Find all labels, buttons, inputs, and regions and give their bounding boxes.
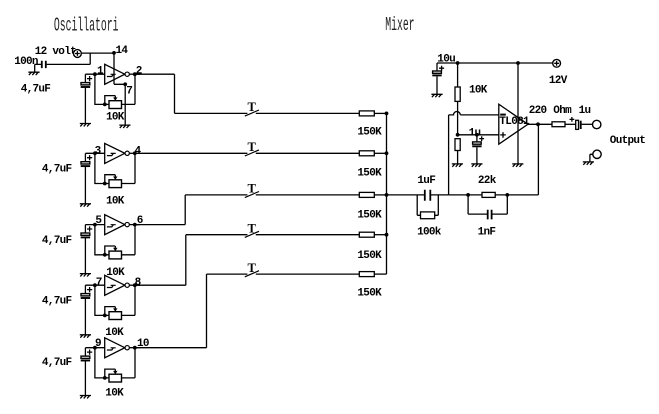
wire switch 1 to resistor (256, 112, 359, 114)
wire resistor 3 to bus (374, 194, 386, 196)
capacitor C4 4,7uF (84, 285, 86, 293)
ground (pin 7) (119, 125, 130, 128)
svg-text:150K: 150K (357, 126, 382, 138)
resistor 10K bias upper (457, 63, 459, 87)
wire inverting input with hop (449, 112, 499, 115)
svg-text:7: 7 (96, 277, 102, 289)
wire pin 14 to inverter (114, 53, 125, 84)
wire switch 3 to resistor (256, 194, 359, 196)
wire pin 7 to ground (124, 84, 126, 125)
svg-text:Ohm: Ohm (553, 105, 572, 117)
junction rail/op-amp supply (516, 61, 520, 65)
ground (op-amp) (512, 164, 523, 167)
node pin 5 (93, 223, 97, 227)
resistor 150K (row 5) (359, 272, 374, 277)
inverter U1A triangle (105, 64, 125, 84)
wire oscillator 1 to switch 1 (135, 74, 248, 113)
resistor 150K (row 3) (359, 192, 374, 197)
resistor bias lower (455, 139, 460, 151)
svg-text:4,7uF: 4,7uF (21, 84, 51, 96)
inverter U1D input wire (85, 284, 104, 286)
junction bus row 4 (385, 233, 389, 237)
inverter U1C triangle (105, 215, 125, 235)
capacitor C2 4,7uF (84, 153, 86, 161)
svg-text:4,7uF: 4,7uF (42, 357, 72, 369)
wire oscillator 3 to switch 3 (135, 195, 248, 225)
ground (C2) (80, 204, 91, 207)
node pin 1 (93, 72, 97, 76)
inverter U1B input wire (85, 152, 104, 154)
wire bus to 1uF (387, 194, 425, 196)
node pin 14 (112, 51, 116, 55)
terminal output signal (593, 120, 601, 128)
resistor 150K (row 1) (359, 111, 374, 116)
output bubble (125, 222, 129, 226)
svg-text:10K: 10K (106, 195, 125, 207)
op-amp minus marker (500, 114, 506, 116)
wire op-amp supply through to ground (517, 63, 519, 164)
wire resistor 1 to bus (374, 112, 386, 114)
inverter U1C input wire (85, 224, 104, 226)
wire resistor 5 to bus (374, 273, 386, 275)
hysteresis mark (107, 285, 116, 287)
power terminal 12V (mixer) (553, 59, 561, 67)
wire output pin 10 (129, 347, 140, 349)
wire output pin 6 (129, 224, 140, 226)
ground (bias divider) (452, 164, 463, 167)
hysteresis mark (107, 225, 116, 227)
svg-text:10K: 10K (105, 388, 124, 400)
capacitor C1 4,7uF (84, 74, 86, 82)
inverter U1A input wire (85, 73, 104, 75)
node pin 3 (93, 151, 97, 155)
capacitor 1u output (576, 120, 579, 129)
node pin 9 (93, 346, 97, 350)
inverter U1E input wire (85, 347, 104, 349)
output bubble (125, 283, 129, 287)
inverter U1E triangle (105, 338, 125, 358)
capacitor C3 4,7uF (84, 225, 86, 233)
potentiometer R5 10K feedback (95, 348, 109, 378)
junction rail/10K (456, 61, 460, 65)
svg-text:1nF: 1nF (478, 226, 496, 238)
junction 1u cap tap (475, 133, 479, 137)
svg-text:220: 220 (529, 105, 547, 117)
output bubble (125, 346, 129, 350)
junction 22k left (466, 193, 470, 197)
wire oscillator 4 to switch 4 (135, 235, 248, 286)
node pin 7 (93, 283, 97, 287)
wire non-inverting input (458, 134, 499, 136)
svg-text:1uF: 1uF (417, 175, 435, 187)
wire output pin 8 (129, 284, 140, 286)
svg-text:150K: 150K (357, 209, 382, 221)
wire rail to pin 14 (81, 52, 114, 54)
node pin 7 (123, 82, 127, 86)
op-amp U2 TL081 (499, 104, 528, 144)
svg-text:4,7uF: 4,7uF (42, 235, 72, 247)
wire inverting input down to feedback node (448, 115, 450, 195)
wire switch 5 to resistor (256, 273, 359, 275)
capacitor 1nF feedback (468, 195, 487, 214)
wire to inverting node (449, 194, 469, 196)
svg-text:22k: 22k (478, 175, 497, 187)
svg-text:TL081: TL081 (499, 116, 530, 128)
ground (C1) (80, 124, 91, 127)
output bubble (125, 151, 129, 155)
ground (100n) (28, 72, 39, 75)
inverter U1B triangle (105, 143, 125, 163)
power terminal +12V (oscillators) (74, 50, 82, 58)
hysteresis mark (107, 74, 116, 76)
junction bias node (456, 133, 460, 137)
junction bus row 1 (385, 112, 389, 116)
svg-text:1u: 1u (579, 105, 591, 117)
svg-text:150K: 150K (357, 167, 382, 179)
wire feedback output to 22k (507, 124, 538, 195)
ground (output) (583, 162, 594, 165)
svg-text:1u: 1u (469, 127, 481, 139)
svg-text:150K: 150K (357, 250, 382, 262)
wire resistor 2 to bus (374, 152, 386, 154)
svg-text:150K: 150K (357, 287, 382, 299)
wire switch 2 to resistor (256, 152, 359, 154)
hysteresis mark (107, 153, 116, 155)
capacitor 10u decoupling (436, 63, 438, 71)
junction bus row 2 (385, 151, 389, 155)
svg-text:7: 7 (126, 85, 132, 97)
wire resistor 4 to bus (374, 234, 386, 236)
ground (1u) (471, 164, 482, 167)
inverter U1D triangle (105, 275, 125, 295)
svg-text:12 volt: 12 volt (35, 46, 76, 58)
resistor 220 Ohm (552, 122, 565, 127)
capacitor C5 4,7uF (84, 348, 86, 356)
junction 22k right (505, 193, 509, 197)
wire summing bus (386, 113, 388, 274)
svg-text:100k: 100k (417, 226, 442, 238)
ground (10u) (431, 94, 442, 97)
svg-text:12V: 12V (549, 75, 568, 87)
wire terminal to ground (590, 154, 593, 162)
wire +12V rail (mixer) (437, 62, 553, 64)
potentiometer R3 10K feedback (95, 225, 109, 255)
wire oscillator 2 to switch 2 (135, 152, 248, 154)
svg-text:4,7uF: 4,7uF (42, 163, 72, 175)
wire output pin 4 (129, 152, 140, 154)
junction output/feedback (536, 122, 540, 126)
terminal output ground (593, 150, 601, 158)
svg-text:Output: Output (610, 135, 646, 147)
svg-text:Mixer: Mixer (385, 14, 414, 37)
junction bus row 3 (385, 193, 389, 197)
wire op-amp output (528, 123, 552, 125)
resistor 100k input DC path (417, 195, 420, 215)
svg-text:9: 9 (95, 338, 101, 350)
svg-text:2: 2 (136, 65, 142, 77)
ground (C3) (80, 274, 91, 277)
resistor 150K (row 4) (359, 232, 374, 237)
hysteresis mark (107, 348, 116, 350)
wire output pin 2 (129, 73, 140, 75)
wire 100n to rail (47, 53, 91, 64)
ground (C4) (80, 335, 91, 338)
potentiometer R2 10K feedback (95, 153, 109, 183)
potentiometer R4 10K feedback (95, 285, 109, 315)
svg-text:10K: 10K (106, 112, 125, 124)
svg-text:10K: 10K (105, 327, 124, 339)
wire switch 4 to resistor (256, 234, 359, 236)
svg-text:10K: 10K (469, 85, 488, 97)
svg-text:4,7uF: 4,7uF (42, 296, 72, 308)
output bubble (125, 72, 129, 76)
svg-text:Oscillatori: Oscillatori (54, 14, 119, 37)
svg-text:14: 14 (116, 45, 129, 57)
wire oscillator 5 to switch 5 (136, 274, 248, 348)
ground (C5) (80, 396, 91, 399)
potentiometer R1 10K feedback (95, 74, 109, 104)
op-amp plus marker (500, 132, 506, 138)
resistor 150K (row 2) (359, 151, 374, 156)
